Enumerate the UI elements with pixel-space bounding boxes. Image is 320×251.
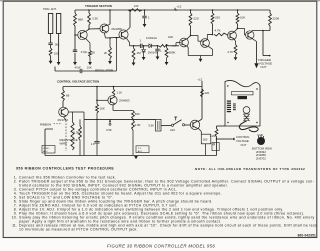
capacitor 1 at rail xyxy=(144,10,146,16)
pot box xyxy=(156,119,162,131)
svg-text:4.7K: 4.7K xyxy=(227,50,233,54)
svg-text:1M: 1M xyxy=(137,51,142,55)
ribbon device panel xyxy=(225,80,260,126)
knob circle xyxy=(243,107,250,114)
svg-text:10K: 10K xyxy=(87,66,92,70)
svg-text:100: 100 xyxy=(134,4,139,8)
resistor 56 xyxy=(89,51,92,57)
wire Q9 collector to rail xyxy=(198,119,202,122)
wire Q3 emitter down right xyxy=(127,38,130,42)
wire Q2 collector to rail xyxy=(109,10,111,24)
ribbed strip left xyxy=(227,101,231,102)
svg-text:2K: 2K xyxy=(104,51,108,55)
resistor 2200 xyxy=(269,10,271,13)
svg-text:ZERO: ZERO xyxy=(43,148,49,150)
svg-text:1.1K: 1.1K xyxy=(117,91,123,95)
trigger output tap xyxy=(262,30,264,32)
svg-text:2.2M: 2.2M xyxy=(210,134,216,138)
wire FET gate xyxy=(97,99,108,101)
transistor Q5 xyxy=(201,39,210,48)
ground xyxy=(143,24,147,27)
svg-text:11.: 11. xyxy=(12,224,17,228)
ground xyxy=(165,62,169,65)
trimmer box 500 xyxy=(201,134,211,144)
transistor Q1 oscillator xyxy=(78,30,87,39)
capacitor 1 shunt xyxy=(157,46,159,49)
wire Q4 collector jog to Q5 base xyxy=(190,26,192,36)
resistor 220 on collector wire xyxy=(201,89,204,97)
wire riser to device panel xyxy=(217,125,226,127)
svg-text:1N914A: 1N914A xyxy=(146,36,157,40)
resistor 220 xyxy=(212,10,214,13)
wire right plate to ground xyxy=(58,34,60,63)
ground xyxy=(132,63,136,66)
wire ribbon top to rail wire xyxy=(72,112,74,118)
svg-text:10.: 10. xyxy=(12,216,17,220)
resistor 4.7K xyxy=(234,45,237,56)
resistor 3.3K xyxy=(88,10,90,13)
svg-text:FIGURE 30 RIBBON CONTROLLER MO: FIGURE 30 RIBBON CONTROLLER MODEL 956 xyxy=(107,243,215,248)
svg-text:680K: 680K xyxy=(169,51,176,55)
ground xyxy=(73,62,77,65)
transistor bottom view symbol xyxy=(257,137,265,145)
capacitor 47pF xyxy=(73,49,77,51)
resistor 68 xyxy=(62,87,64,91)
svg-text:960-042951: 960-042951 xyxy=(297,233,316,237)
trimmer box zero adj xyxy=(42,146,55,154)
right riser 2.2M xyxy=(216,126,218,129)
series capacitor xyxy=(139,44,141,48)
wire Q7 emitter down xyxy=(252,39,257,42)
transistor Q6 xyxy=(228,31,237,40)
svg-text:68: 68 xyxy=(66,94,70,98)
trimmer box right xyxy=(212,143,219,151)
svg-text:+12: +12 xyxy=(198,77,203,81)
wire to Q2 base xyxy=(89,28,100,30)
svg-text:500: 500 xyxy=(135,112,140,116)
svg-text:NOTE: ALL UNLABELED TRANSIS: NOTE: ALL UNLABELED TRANSISTORS OF TYPE … xyxy=(195,167,305,171)
transistor Q3 xyxy=(119,30,128,39)
svg-text:10K: 10K xyxy=(100,107,105,111)
wire Q4 emitter down xyxy=(187,46,188,48)
cable gland xyxy=(243,114,250,121)
svg-text:3.5K: 3.5K xyxy=(148,123,154,127)
wiper tap circle xyxy=(109,119,111,123)
output arrow down xyxy=(254,63,258,68)
svg-text:2200: 2200 xyxy=(273,17,280,21)
wire Q8 base right xyxy=(68,111,84,113)
FET 2N4083 xyxy=(108,96,117,105)
svg-text:ECB: ECB xyxy=(258,133,264,137)
resistor 4.7K series xyxy=(214,33,227,36)
node wire xyxy=(105,36,119,39)
ground xyxy=(88,62,92,65)
resistor 1.1K drain xyxy=(112,89,114,96)
wire FET drain to rail xyxy=(113,87,115,90)
wire Q9 emitter to trimmer box xyxy=(198,128,201,131)
svg-text:86K: 86K xyxy=(78,18,83,22)
wire Q3 collector to rail xyxy=(129,10,131,28)
svg-text:956 RIBBON CONTROLLERS TEST PR: 956 RIBBON CONTROLLERS TEST PROCEDURE xyxy=(16,166,114,170)
svg-text:TRIG. ANT.: TRIG. ANT. xyxy=(43,7,57,11)
svg-text:TRIGGER SECTION: TRIGGER SECTION xyxy=(85,4,112,8)
svg-text:OUT: OUT xyxy=(260,65,266,69)
svg-text:10K: 10K xyxy=(168,35,173,39)
ground xyxy=(57,62,61,65)
panel screws xyxy=(227,85,228,86)
svg-text:500: 500 xyxy=(203,138,208,142)
ground tap xyxy=(200,56,202,59)
wire Q8 emitter to ribbon wiper xyxy=(64,117,67,120)
svg-text:47pF: 47pF xyxy=(75,66,82,70)
ribbon wiper dashed xyxy=(65,121,67,152)
switch contact xyxy=(171,124,173,126)
svg-text:3.5K: 3.5K xyxy=(106,128,112,132)
wire left plate down xyxy=(50,34,52,43)
svg-text:2N4083: 2N4083 xyxy=(119,99,130,103)
resistor 680K shunt xyxy=(166,46,168,48)
+12 rail control section xyxy=(63,86,202,88)
ground xyxy=(142,57,146,60)
trimmer box 1v adj xyxy=(136,146,149,153)
resistor 2K xyxy=(109,38,111,47)
svg-text:10K: 10K xyxy=(240,16,245,20)
svg-text:OSCILLATOR: OSCILLATOR xyxy=(95,68,113,72)
ground xyxy=(108,61,112,64)
switch actuator mark xyxy=(175,117,177,120)
svg-text:1 V.: 1 V. xyxy=(138,148,142,150)
emitter bus xyxy=(188,55,212,57)
svg-text:47pF: 47pF xyxy=(81,50,88,54)
capacitor .001 xyxy=(48,42,52,44)
wire x84 down to bottom rail xyxy=(83,119,85,155)
switch contact right xyxy=(182,124,184,126)
wire Q1 collector up xyxy=(86,29,89,31)
svg-text:WIRE: WIRE xyxy=(60,142,68,146)
transistor Q8 2N3702 xyxy=(59,107,69,117)
left wire to bottom rail xyxy=(44,129,46,156)
wire diode to node xyxy=(152,45,159,47)
diode 1N914A shunt xyxy=(143,46,145,50)
svg-text:2N4058: 2N4058 xyxy=(111,27,122,31)
svg-text:3.3K: 3.3K xyxy=(92,17,98,21)
svg-text:OUT: OUT xyxy=(241,143,247,147)
svg-text:.001: .001 xyxy=(54,43,60,47)
svg-text:2.: 2. xyxy=(14,180,17,184)
resistor 5.3K xyxy=(79,119,81,126)
svg-text:ADJ: ADJ xyxy=(43,150,47,153)
svg-text:220: 220 xyxy=(194,17,199,21)
resistor 10K from rail xyxy=(96,87,98,105)
svg-text:CONTROL VOLTAGE SECTION: CONTROL VOLTAGE SECTION xyxy=(57,79,99,83)
resistor 500 xyxy=(132,111,135,120)
transistor Q7 xyxy=(246,31,254,39)
svg-text:ADJ: ADJ xyxy=(138,150,142,153)
ground xyxy=(156,57,160,60)
transistor Q9 xyxy=(190,120,199,129)
wire node to base xyxy=(74,26,76,51)
ribbon slot xyxy=(232,92,254,95)
svg-text:4.7K: 4.7K xyxy=(215,29,221,33)
svg-text:100: 100 xyxy=(54,52,59,56)
resistor 220 xyxy=(190,10,192,13)
resistor 1M xyxy=(132,48,135,60)
transistor Q2 2N4058 xyxy=(100,24,109,33)
resistor 10K xyxy=(237,10,239,13)
cable xyxy=(239,121,258,132)
svg-text:10 mv/minute as measured at PI: 10 mv/minute as measured at PITCH CONTRO… xyxy=(19,228,138,232)
resistor 1.5K xyxy=(132,120,135,130)
svg-text:ADJ: ADJ xyxy=(170,128,176,132)
trigger antenna plate 1 xyxy=(48,14,52,34)
ground xyxy=(49,61,53,64)
control out arrow xyxy=(217,138,232,140)
wire Q6 collector jog xyxy=(234,29,237,32)
wire Q5 collector xyxy=(206,35,208,40)
ribbon resistance wire element xyxy=(72,118,74,122)
ground xyxy=(234,57,238,60)
svg-text:2N3702: 2N3702 xyxy=(58,118,69,122)
wire box to bottom rail xyxy=(205,144,207,156)
svg-text:220: 220 xyxy=(215,16,220,20)
oscillator bracket xyxy=(55,70,80,72)
svg-text:1.6: 1.6 xyxy=(91,142,95,146)
transistor Q4 xyxy=(180,38,189,47)
wire Q6 emitter xyxy=(234,39,235,41)
pitch bus wire xyxy=(84,118,156,120)
svg-text:56: 56 xyxy=(92,51,96,55)
ribbed strip small xyxy=(233,104,236,105)
svg-text:RIBBON: RIBBON xyxy=(40,122,51,126)
resistor 86K from rail xyxy=(74,10,76,13)
diode 1N914A xyxy=(142,45,149,47)
wire Q1 emitter down xyxy=(86,38,90,43)
svg-text:1.5K: 1.5K xyxy=(135,123,141,127)
svg-text:5.3K: 5.3K xyxy=(74,131,80,135)
wire 2200 to Q7 collector xyxy=(269,26,271,31)
wire to Q7 base xyxy=(238,27,245,29)
wire Q2 emitter to node line xyxy=(104,33,105,38)
+12 supply rail xyxy=(75,9,270,11)
resistor 100 xyxy=(49,48,52,56)
bottom rail xyxy=(45,155,217,157)
svg-text:2N3702: 2N3702 xyxy=(256,156,266,160)
svg-text:220: 220 xyxy=(205,91,210,95)
svg-text:+12: +12 xyxy=(177,5,182,9)
slot label plate xyxy=(238,96,248,99)
wire box to switch xyxy=(161,125,171,127)
ground on bottom rail xyxy=(134,156,138,159)
resistor 10K series xyxy=(159,45,169,48)
capacitor 1.6 xyxy=(94,140,99,142)
wire FET source right xyxy=(112,105,114,111)
wire node to oscillator bracket xyxy=(116,38,118,71)
trigger antenna plate 2 xyxy=(56,14,60,34)
